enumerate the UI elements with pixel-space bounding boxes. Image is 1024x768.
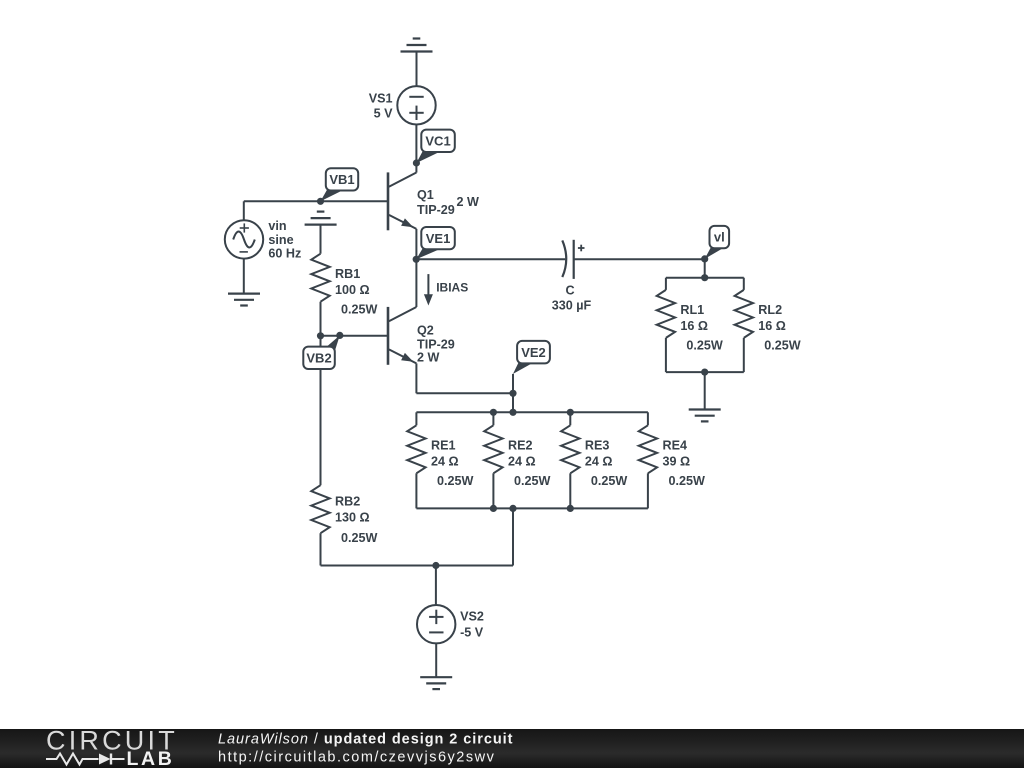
svg-text:sine: sine	[268, 233, 293, 247]
svg-text:VS2: VS2	[460, 610, 484, 624]
svg-text:VE1: VE1	[426, 231, 451, 246]
svg-text:RL1: RL1	[680, 303, 704, 317]
CircuitLab logo wordmark	[46, 726, 178, 768]
ground (below RL)	[689, 410, 721, 422]
wire Q2 collector to VE1	[415, 259, 417, 307]
svg-text:VE2: VE2	[521, 345, 546, 360]
ground (top, above VS1)	[401, 39, 433, 87]
svg-text:IBIAS: IBIAS	[436, 281, 468, 295]
resistor RL1	[657, 278, 675, 372]
label RE4	[663, 438, 706, 488]
resistor RL2	[735, 278, 753, 372]
svg-text:RE1: RE1	[431, 438, 456, 452]
svg-text:LauraWilson / updated design 2: LauraWilson / updated design 2 circuit	[218, 732, 513, 748]
svg-text:24 Ω: 24 Ω	[431, 454, 459, 468]
wire vl down	[701, 259, 708, 281]
svg-text:vl: vl	[714, 230, 725, 245]
footer title text	[218, 732, 513, 766]
source vin (sine)	[225, 220, 263, 258]
resistor RE4	[639, 412, 657, 508]
svg-text:http://circuitlab.com/czevvjs6: http://circuitlab.com/czevvjs6y2swv	[218, 750, 495, 766]
label RL2	[758, 303, 801, 353]
node VE2	[513, 341, 550, 374]
svg-text:60 Hz: 60 Hz	[268, 246, 301, 260]
wire RE bank down	[512, 508, 514, 565]
ground (below VS2)	[420, 677, 452, 689]
wire vin bottom	[243, 259, 245, 294]
voltage source VS2	[417, 605, 455, 643]
svg-text:16 Ω: 16 Ω	[758, 319, 786, 333]
node VB2	[303, 332, 343, 369]
wire Q1 emitter to VE1	[415, 229, 417, 259]
svg-text:C: C	[565, 284, 574, 298]
wire Q2 emitter to VE2	[416, 392, 513, 394]
svg-text:330 µF: 330 µF	[552, 299, 592, 313]
svg-text:RB1: RB1	[335, 267, 360, 281]
label RE1	[431, 438, 474, 488]
transistor Q2	[388, 307, 416, 365]
svg-text:RE4: RE4	[663, 438, 688, 452]
wire RL to ground	[704, 372, 706, 409]
svg-text:16 Ω: 16 Ω	[680, 319, 708, 333]
capacitor C	[562, 240, 584, 279]
svg-text:0.25W: 0.25W	[591, 474, 628, 488]
ground (below vin)	[228, 294, 260, 306]
svg-text:24 Ω: 24 Ω	[585, 454, 613, 468]
svg-text:VB1: VB1	[329, 172, 354, 187]
wire RL bottom rail	[666, 369, 744, 376]
svg-text:VS1: VS1	[369, 92, 393, 106]
node VE1	[413, 227, 455, 263]
junction at VB2 wire	[317, 332, 324, 339]
current arrow IBIAS	[424, 274, 468, 305]
svg-text:0.25W: 0.25W	[514, 474, 551, 488]
wire RL top rail	[666, 277, 744, 279]
resistor RE1	[407, 412, 425, 508]
wire VB2 down to RB2	[320, 336, 322, 485]
svg-text:Q1: Q1	[417, 188, 434, 202]
wire VB2 node to Q2 base	[321, 335, 389, 337]
footer bar	[0, 729, 1024, 768]
label vin	[268, 219, 301, 260]
svg-text:0.25W: 0.25W	[669, 474, 706, 488]
svg-text:vin: vin	[268, 219, 286, 233]
wire RB1 to VB2 node	[320, 302, 322, 336]
wire capacitor to vl	[574, 258, 705, 260]
svg-text:TIP-29: TIP-29	[417, 203, 455, 217]
wire VE1 to capacitor	[416, 258, 565, 260]
svg-text:130 Ω: 130 Ω	[335, 511, 370, 525]
wire VE2 down	[509, 374, 516, 416]
resistor RB2	[311, 485, 329, 565]
svg-text:RE3: RE3	[585, 438, 610, 452]
label RE3	[585, 438, 628, 488]
svg-text:VC1: VC1	[425, 133, 450, 148]
wire vin to Q1 base	[244, 200, 388, 202]
wire bottom rail	[321, 562, 514, 569]
node vl	[701, 226, 729, 263]
svg-text:RL2: RL2	[758, 303, 782, 317]
svg-text:5 V: 5 V	[374, 107, 394, 121]
resistor RE2	[484, 412, 502, 508]
transistor Q1	[388, 172, 416, 230]
resistor RB1	[311, 254, 329, 302]
label RL1	[680, 303, 723, 353]
svg-text:LAB: LAB	[127, 748, 175, 768]
label RB2	[335, 495, 378, 545]
svg-text:Q2: Q2	[417, 324, 434, 338]
svg-text:TIP-29: TIP-29	[417, 338, 455, 352]
label Q1	[417, 188, 479, 217]
svg-text:0.25W: 0.25W	[686, 339, 723, 353]
svg-text:-5 V: -5 V	[460, 626, 484, 640]
svg-text:24 Ω: 24 Ω	[508, 454, 536, 468]
label RB1	[335, 267, 378, 316]
label C	[552, 284, 592, 313]
node VB1	[317, 168, 358, 205]
wire to VS2	[435, 566, 437, 606]
wire vin top	[243, 201, 245, 220]
wire RE bottom rail	[416, 505, 648, 512]
logo resistor-diode glyph	[46, 754, 125, 765]
label RE2	[508, 438, 551, 488]
svg-text:0.25W: 0.25W	[437, 474, 474, 488]
svg-text:0.25W: 0.25W	[341, 531, 378, 545]
svg-text:2 W: 2 W	[417, 351, 440, 365]
svg-text:0.25W: 0.25W	[341, 302, 378, 316]
label Q2	[417, 324, 455, 365]
voltage source VS1	[369, 86, 436, 124]
wire RE top rail	[416, 409, 648, 416]
resistor RE3	[561, 412, 579, 508]
svg-text:VB2: VB2	[306, 350, 331, 365]
wire Q2 emitter down	[415, 363, 417, 393]
node VC1	[413, 130, 455, 167]
svg-text:0.25W: 0.25W	[764, 339, 801, 353]
svg-text:RB2: RB2	[335, 495, 360, 509]
ground (inverted, above RB1)	[305, 212, 337, 254]
svg-text:39 Ω: 39 Ω	[663, 454, 691, 468]
svg-text:2 W: 2 W	[457, 195, 480, 209]
wire VS2 to ground	[435, 643, 437, 677]
label VS2	[460, 610, 484, 640]
svg-text:RE2: RE2	[508, 438, 533, 452]
wire VS1 to Q1 collector	[415, 124, 417, 172]
svg-text:100 Ω: 100 Ω	[335, 283, 370, 297]
